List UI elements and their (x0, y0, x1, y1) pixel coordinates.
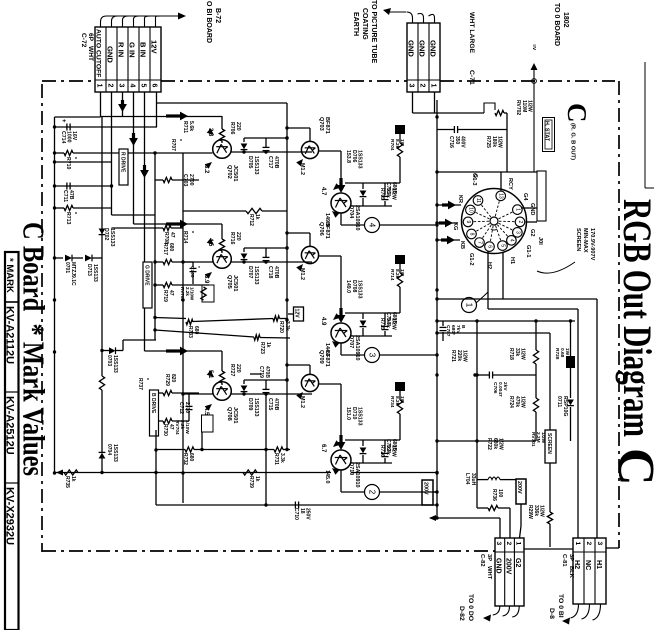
resistor R737 (99, 376, 104, 390)
svg-text:7: 7 (477, 241, 483, 244)
net box 200V left (422, 480, 433, 505)
junction (435, 115, 438, 118)
net box SCREEN (545, 430, 556, 463)
svg-text:R29W: R29W (527, 505, 533, 519)
svg-text:Q707: Q707 (348, 335, 354, 348)
wire R708 row (112, 227, 164, 229)
wire to test point (340, 470, 342, 492)
svg-text:KR: KR (457, 195, 463, 203)
svg-text:SCREEN: SCREEN (575, 228, 581, 251)
svg-text:1: 1 (96, 84, 103, 88)
svg-text:1/10W: 1/10W (190, 287, 195, 301)
wire 200V branch column (476, 321, 478, 508)
wire H2 row (488, 308, 578, 310)
svg-text:D713: D713 (86, 264, 92, 276)
svg-text:1SS133: 1SS133 (357, 280, 363, 299)
svg-text:820: 820 (170, 374, 176, 383)
C-81 leads (571, 604, 579, 618)
junction (53, 350, 56, 353)
svg-text:R720: R720 (278, 321, 284, 333)
svg-text:C719: C719 (258, 366, 264, 378)
svg-text:2: 2 (505, 542, 512, 546)
junction (435, 170, 438, 173)
svg-text:R724: R724 (508, 396, 514, 408)
svg-text:J0I: J0I (537, 237, 543, 245)
svg-text:Q706: Q706 (318, 222, 324, 236)
emitter row wire (231, 151, 312, 153)
wire 12V bus corner (156, 102, 158, 104)
wire 1802 feed (533, 68, 535, 172)
CRT socket outer circle (462, 189, 527, 254)
svg-text:TO 0 BOARD: TO 0 BOARD (553, 3, 560, 46)
svg-text:KB: KB (459, 241, 465, 249)
connector C-81 body (573, 538, 606, 604)
wire G4 to box (521, 207, 537, 209)
junction (181, 392, 184, 395)
svg-text:3.9: 3.9 (203, 275, 209, 284)
svg-text:RSP10G: RSP10G (562, 396, 568, 416)
test point circle 4 (365, 218, 380, 233)
svg-text:470B: 470B (273, 156, 279, 169)
svg-text:*: * (176, 139, 182, 141)
svg-text:R721: R721 (450, 350, 456, 362)
resistor R732 680 (185, 447, 194, 452)
wire to pin2 (509, 508, 511, 538)
junction (435, 471, 438, 474)
svg-text:MTZJ9.1C: MTZJ9.1C (70, 262, 76, 286)
svg-text:RCY: RCY (507, 178, 513, 190)
svg-text:B IN: B IN (139, 42, 148, 57)
svg-text:Q709: Q709 (318, 350, 324, 364)
svg-text:R736: R736 (491, 489, 497, 501)
capacitor C787 (442, 321, 444, 326)
svg-text:6: 6 (151, 84, 158, 88)
spark gap RV702 (484, 103, 495, 113)
wire gnd to pin3 (430, 517, 500, 519)
test point circle 2 (365, 485, 380, 500)
resistor R713 row (55, 207, 65, 209)
wire to test point (340, 343, 342, 355)
wire base column (221, 116, 223, 129)
svg-text:TO 0 DO: TO 0 DO (467, 594, 474, 621)
wire 200V box to pin1 (520, 504, 522, 526)
svg-text:250V: 250V (305, 508, 311, 520)
wire KR drive (437, 204, 461, 206)
wire R707 row (155, 179, 163, 181)
svg-text:5.3k: 5.3k (385, 445, 391, 455)
svg-text:11: 11 (475, 198, 481, 203)
diode D711 RSP10G (570, 368, 572, 398)
socket pin 3 (499, 223, 514, 230)
wire left rail (54, 117, 56, 473)
transistor Q710 2SA1091 (331, 450, 351, 470)
pointer (207, 128, 216, 137)
svg-text:8: 8 (469, 233, 475, 236)
svg-text:R739: R739 (248, 476, 254, 488)
svg-text:180k: 180k (491, 136, 497, 147)
svg-text:B-72: B-72 (214, 8, 221, 23)
pointer output value (331, 313, 340, 322)
svg-text:C-82: C-82 (479, 554, 485, 567)
resistor R720 3.3k (273, 316, 280, 321)
svg-text:GND: GND (106, 46, 115, 63)
svg-text:470B: 470B (273, 266, 279, 279)
wire emitter link (319, 150, 341, 152)
svg-text:R707: R707 (170, 139, 176, 151)
capacitor C705 (363, 182, 385, 184)
svg-text:GND: GND (429, 40, 438, 57)
svg-text:3: 3 (118, 84, 125, 88)
wire base feed Q705 (134, 223, 223, 225)
table divider (5, 391, 19, 393)
junction (53, 206, 56, 209)
wire B column (155, 430, 157, 505)
junction (435, 238, 438, 241)
junction (435, 319, 438, 322)
svg-text:220: 220 (235, 364, 241, 373)
wire screen bottom row (437, 440, 536, 442)
svg-text:H1: H1 (509, 257, 515, 264)
svg-text:6P: 6P (87, 33, 94, 42)
connector C-82 body (495, 538, 524, 606)
svg-text:3P: 3P (486, 554, 492, 561)
wire R stage feed (101, 116, 223, 118)
svg-text:*: * (143, 378, 149, 380)
svg-text:C703: C703 (182, 174, 188, 187)
test point circle 3 (365, 348, 380, 363)
svg-text:WHT: WHT (486, 566, 492, 580)
svg-text:R719: R719 (162, 290, 168, 302)
net box 200V right (516, 479, 526, 504)
svg-text:1SS133: 1SS133 (357, 150, 363, 169)
svg-text:1/2W: 1/2W (498, 438, 504, 450)
svg-text:R DRIVE: R DRIVE (120, 152, 126, 173)
svg-text:WHT LARGE: WHT LARGE (468, 12, 475, 54)
junction (435, 373, 438, 376)
wire to test point (340, 213, 342, 225)
svg-text:(R. G. B OUT): (R. G. B OUT) (570, 123, 576, 160)
bold arrow down (340, 384, 342, 440)
svg-text:2SA10910: 2SA10910 (354, 205, 360, 230)
socket enclosure top (437, 171, 537, 173)
junction (285, 298, 288, 301)
net box marker (395, 382, 405, 391)
connector C-72 cell divider (138, 27, 140, 92)
wire gnd link row (112, 214, 156, 216)
diode D703 row (109, 347, 116, 354)
junction (53, 298, 56, 301)
svg-text:KV-A2112U: KV-A2112U (4, 306, 16, 364)
wire main right bus (436, 100, 438, 518)
svg-text:2: 2 (585, 542, 592, 546)
wire H2 down (487, 251, 489, 309)
wire output row right (351, 472, 437, 474)
svg-text:5.3k: 5.3k (385, 188, 391, 198)
pointer (330, 339, 339, 348)
pointer output value (331, 440, 340, 449)
arrow to BI board (178, 13, 186, 20)
svg-text:1k: 1k (70, 476, 76, 482)
net box marker (395, 255, 405, 264)
svg-text:680k: 680k (492, 438, 498, 449)
svg-text:* MARK: * MARK (4, 258, 15, 293)
wire top bus (55, 116, 101, 118)
wire 12V bus (157, 102, 288, 104)
diode D707 1SS133 (243, 248, 245, 252)
wire KG drive (437, 222, 458, 224)
svg-text:470B: 470B (273, 398, 279, 411)
net box B DRIVE (150, 390, 159, 436)
svg-text:H2: H2 (486, 262, 492, 269)
socket pin 4 (497, 225, 508, 237)
svg-text:C-72: C-72 (80, 33, 87, 48)
svg-text:1k: 1k (265, 342, 271, 348)
connector C-72 cell divider (149, 27, 151, 92)
svg-text:2.2k: 2.2k (185, 287, 190, 296)
wire collector stub (287, 127, 310, 129)
svg-text:470k: 470k (514, 396, 520, 407)
wire diode cap top (244, 247, 287, 249)
wire C710 row (156, 504, 437, 506)
svg-text:3.3k: 3.3k (279, 453, 285, 463)
inductor L704 (488, 477, 500, 480)
junction (181, 471, 184, 474)
wire collector stub (287, 364, 310, 366)
svg-text:400V: 400V (460, 136, 466, 148)
socket pin 6 (490, 226, 493, 242)
svg-text:110M: 110M (521, 100, 527, 112)
svg-text:RV703: RV703 (180, 287, 185, 301)
svg-text:Q710: Q710 (348, 462, 354, 475)
svg-text:D-8: D-8 (548, 608, 555, 619)
resistor R704 branch (385, 439, 400, 441)
CRT socket center pin (490, 217, 498, 225)
junction (53, 151, 56, 154)
svg-text:C705: C705 (189, 266, 195, 278)
C-82 cell dividers (504, 538, 506, 606)
svg-text:1SS133: 1SS133 (253, 266, 259, 285)
wire 12V drop (156, 92, 158, 127)
svg-text:H. STAT: H. STAT (544, 121, 550, 142)
pointer (205, 160, 214, 169)
svg-text:4: 4 (368, 223, 377, 228)
svg-text:2700: 2700 (184, 402, 190, 413)
svg-text:M1.2: M1.2 (299, 396, 305, 408)
transistor Q702 JC501 (213, 140, 232, 159)
svg-text:5: 5 (500, 244, 506, 247)
svg-text:100: 100 (497, 489, 503, 498)
junction (435, 439, 438, 442)
connector C-72 pin strip line (95, 79, 161, 81)
svg-text:*: * (195, 266, 201, 268)
svg-text:2: 2 (107, 84, 114, 88)
svg-text:0704: 0704 (106, 444, 112, 455)
svg-text:M1.2: M1.2 (299, 268, 305, 280)
svg-text:200V: 200V (516, 481, 522, 494)
emitter row wire (183, 393, 213, 395)
svg-text:3: 3 (368, 353, 377, 358)
wire L704 row (477, 479, 488, 481)
svg-text:4.7: 4.7 (320, 187, 326, 196)
junction (53, 125, 56, 128)
svg-text:680: 680 (168, 243, 174, 252)
svg-text:D707: D707 (247, 266, 253, 279)
wire R723 row (155, 330, 254, 337)
transistor Q704 2SA1091 (331, 193, 351, 213)
svg-text:10: 10 (467, 207, 473, 213)
transistor Q708 JC501 (213, 382, 232, 401)
svg-text:1: 1 (465, 303, 474, 308)
wire pin1 drop AUTO CUTOFF (100, 92, 102, 117)
svg-text:C716: C716 (448, 136, 454, 148)
model table frame (5, 252, 19, 630)
svg-text:BF871: BF871 (324, 117, 330, 134)
resistor R727 220 (219, 371, 224, 383)
resistor R733 680 (186, 319, 193, 324)
svg-text:G4: G4 (522, 193, 528, 201)
svg-text:M1.2: M1.2 (299, 163, 305, 175)
capacitor C717 470 (265, 138, 267, 147)
svg-text:1/2W: 1/2W (520, 396, 526, 408)
svg-text:R712: R712 (248, 214, 254, 226)
svg-text:0701: 0701 (64, 262, 70, 273)
wire G2 row (437, 332, 550, 334)
svg-text:5.3k: 5.3k (385, 318, 391, 328)
diode D708 (345, 312, 363, 314)
svg-text:R725: R725 (485, 136, 491, 148)
emitter row wire (183, 261, 213, 263)
wire pin2 drop GND (111, 92, 113, 215)
pointer (330, 209, 339, 218)
resistor R723 1k (254, 335, 260, 340)
socket pin 10 (475, 212, 490, 219)
net box R DRIVE (119, 149, 128, 185)
socket pin 8 (476, 224, 490, 232)
svg-text:G1-3: G1-3 (471, 173, 477, 185)
wire test point to bus (380, 491, 438, 493)
svg-text:47: 47 (169, 232, 175, 238)
svg-text:1/2W: 1/2W (527, 100, 533, 112)
pointer M1.2 (296, 390, 305, 399)
svg-text:1k: 1k (254, 214, 260, 220)
G4 junction box (537, 171, 546, 221)
svg-text:1802: 1802 (562, 12, 569, 28)
connector C-71 pin strip line (407, 79, 440, 81)
svg-text:0711: 0711 (556, 396, 562, 407)
svg-text:1W: 1W (399, 269, 405, 277)
pointer (330, 466, 339, 475)
wire H1 row (437, 298, 597, 300)
svg-text:4.9: 4.9 (320, 317, 326, 326)
wire emitter link (319, 383, 341, 385)
pointer M1.2 (296, 157, 305, 166)
svg-text:G1-1: G1-1 (525, 245, 531, 257)
svg-text:2kV: 2kV (502, 382, 508, 391)
socket pin 13 (495, 201, 499, 217)
arrow G IN (132, 133, 135, 141)
svg-text:1/2W: 1/2W (391, 318, 397, 330)
capacitor C715 470 (265, 380, 267, 389)
wire base column (221, 351, 223, 371)
diode D713 (85, 255, 92, 262)
capacitor C709 (363, 439, 385, 441)
svg-text:Q702: Q702 (226, 165, 232, 179)
connector C-71 cell divider (428, 23, 430, 92)
zener diode D701 row (55, 257, 64, 259)
svg-text:R710: R710 (65, 157, 71, 170)
svg-text:2SA10910: 2SA10910 (354, 335, 360, 360)
arrow to picture tube coating (383, 8, 391, 15)
capacitor C705 (192, 262, 194, 267)
svg-text:R722: R722 (486, 438, 492, 450)
junction (285, 126, 288, 129)
svg-text:B DRIVE: B DRIVE (150, 393, 156, 414)
wire emitter row (351, 462, 392, 464)
svg-text:47: 47 (168, 424, 174, 430)
capacitor C706 (488, 372, 490, 379)
svg-text:D705: D705 (247, 156, 253, 169)
wire C-71 leads to earth arrow (407, 12, 413, 23)
potentiometer RV703 (202, 285, 214, 302)
svg-text:C-81: C-81 (561, 554, 567, 567)
svg-text:R705: R705 (379, 188, 385, 200)
svg-text:R731: R731 (273, 453, 279, 465)
junction (285, 246, 288, 249)
svg-text:≡v: ≡v (531, 44, 537, 50)
resistor R739 1k (243, 470, 257, 475)
wire test point to bus (380, 354, 438, 356)
svg-text:C-71: C-71 (468, 70, 475, 85)
svg-text:C711: C711 (62, 190, 68, 202)
svg-text:BLK: BLK (568, 566, 574, 579)
connector C-72 cell divider (116, 27, 118, 92)
svg-text:2: 2 (368, 490, 377, 495)
resistor R735 1k (64, 470, 78, 475)
resistor R724 470k (533, 398, 538, 412)
svg-text:18: 18 (299, 508, 305, 514)
svg-text:1: 1 (515, 542, 522, 546)
wire test point to bus (380, 224, 438, 226)
wire bottom rail (54, 472, 331, 474)
junction (285, 136, 288, 139)
svg-text:12V: 12V (294, 309, 300, 319)
junction (285, 363, 288, 366)
svg-text:D706: D706 (351, 150, 357, 163)
connector C-72 body (95, 27, 161, 92)
svg-text:3: 3 (408, 84, 415, 88)
junction (53, 471, 56, 474)
svg-text:2SA10910: 2SA10910 (354, 462, 360, 487)
svg-text:JC501: JC501 (232, 407, 238, 423)
capacitor C716 (453, 126, 455, 133)
svg-text:33uH: 33uH (470, 473, 476, 486)
wire H1 down (502, 252, 504, 299)
capacitor C718 470 (265, 248, 267, 257)
pointer (205, 402, 214, 411)
socket pin 5 (496, 226, 501, 241)
svg-text:H1: H1 (595, 560, 604, 569)
svg-text:1/10W: 1/10W (184, 420, 190, 434)
svg-text:D710: D710 (351, 407, 357, 420)
svg-text:0703: 0703 (106, 355, 112, 366)
svg-text:1: 1 (514, 208, 520, 211)
wire collector stub (287, 232, 310, 234)
wire (549, 463, 551, 473)
C-82 pin strip line (495, 551, 524, 553)
svg-text:1W: 1W (399, 396, 405, 404)
svg-text:G2: G2 (514, 558, 521, 567)
capacitor C710 (294, 502, 296, 509)
